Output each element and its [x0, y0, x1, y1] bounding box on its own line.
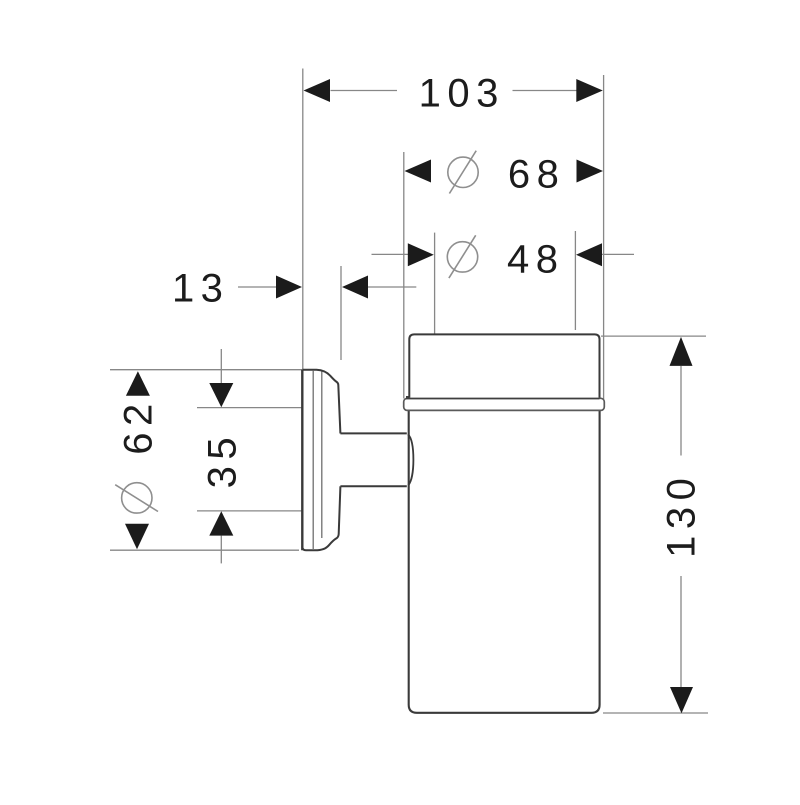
- arrow 103 left: [304, 79, 331, 102]
- tumbler rim: [409, 334, 599, 397]
- svg-text:130: 130: [660, 472, 704, 558]
- arm top line: [340, 432, 406, 434]
- leader dia48 right: [602, 253, 635, 255]
- svg-text:68: 68: [508, 153, 566, 197]
- dimension line segment 35 column upper: [220, 349, 222, 383]
- arrow dia68 right: [577, 160, 604, 183]
- arrow 13 pointing left: [342, 276, 368, 299]
- arrow dia68 left: [405, 160, 432, 183]
- svg-text:62: 62: [116, 397, 160, 455]
- diameter symbol for 48: [447, 242, 477, 272]
- wall plate top profile: [302, 370, 340, 434]
- extension line left of dia68: [403, 152, 405, 399]
- extension line plate bottom (dia62 bottom): [110, 549, 299, 551]
- diameter symbol for 62 rotated: [122, 483, 152, 513]
- extension line right of 103/68: [603, 75, 605, 399]
- extension line plate top (dia62 top): [110, 369, 302, 371]
- extension line left of 103/13 (wall plane): [302, 69, 304, 370]
- arrow dia62 bottom: [125, 524, 149, 550]
- leader 103 left: [331, 90, 398, 92]
- dimension line segment 130 column lower: [680, 576, 682, 687]
- wall plate inner line a: [312, 370, 314, 550]
- arrow 103 right: [576, 79, 603, 102]
- extension line 35 bottom: [197, 510, 302, 512]
- tumbler body: [409, 411, 600, 713]
- diameter symbol for 68: [448, 157, 478, 187]
- svg-text:13: 13: [172, 267, 230, 311]
- arrow 130 top: [670, 337, 693, 366]
- arrow dia62 top: [126, 371, 150, 396]
- dimension line segment 130 column upper: [680, 366, 682, 456]
- rim lower thick band: [406, 396, 600, 399]
- svg-text:35: 35: [201, 431, 245, 489]
- extension line right of dia48: [574, 231, 576, 330]
- extension line left of dia48: [434, 233, 436, 335]
- leader 13 right: [368, 286, 416, 288]
- extension line 130 top: [601, 335, 706, 337]
- arrow 13 pointing right: [276, 276, 302, 299]
- dimension line segment 35 column lower: [220, 536, 222, 564]
- svg-text:48: 48: [507, 237, 565, 281]
- svg-text:103: 103: [419, 72, 505, 116]
- arrow 35 top: [209, 383, 233, 407]
- holder lip ring: [404, 398, 605, 410]
- leader 103 right: [513, 90, 577, 92]
- leader dia48 left: [372, 253, 409, 255]
- wall plate inner line b: [321, 372, 323, 539]
- wall plate back edge: [301, 370, 303, 550]
- arm bottom line: [340, 485, 406, 487]
- extension line right of 13 (plate front plane): [340, 266, 342, 360]
- extension line 35 top: [197, 407, 302, 409]
- arrow dia48 left: [408, 243, 434, 266]
- holder collar bulge: [408, 434, 413, 485]
- extension line 130 bottom: [603, 712, 708, 714]
- wall plate bottom profile: [302, 486, 340, 550]
- arrow dia48 right: [576, 243, 602, 266]
- leader 13 left: [238, 286, 277, 288]
- arrow 35 bottom: [209, 511, 233, 535]
- arrow 130 bottom: [670, 687, 693, 713]
